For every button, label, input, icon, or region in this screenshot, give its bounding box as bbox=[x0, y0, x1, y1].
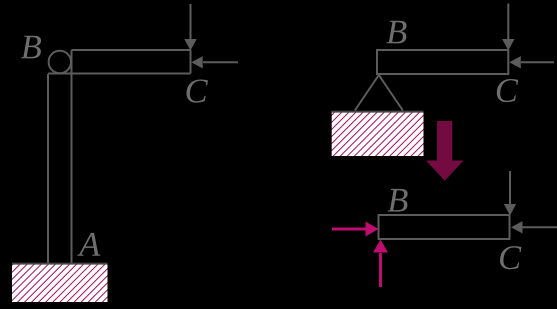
big implication arrow (down, dark magenta) bbox=[426, 121, 464, 181]
label C (frame) bbox=[187, 79, 208, 102]
force arrow (horizontal, left) at C bbox=[509, 56, 554, 68]
label B (frame) bbox=[21, 36, 41, 59]
force arrow (horizontal, left) at C bbox=[191, 56, 238, 68]
force arrow (horizontal, left) at C bbox=[511, 221, 557, 233]
pin circle at B bbox=[49, 51, 71, 73]
member AB (vertical bar, two lines) bbox=[48, 50, 72, 263]
force arrow (vertical, down) at C bbox=[502, 4, 514, 51]
force arrow (vertical, down) at C bbox=[504, 171, 516, 216]
member BC (horizontal beam) bbox=[48, 50, 191, 74]
beam BC bbox=[379, 215, 510, 239]
ground block at A (hatched) bbox=[12, 263, 108, 302]
force arrow (vertical, down) at C bbox=[184, 4, 196, 51]
label A (frame) bbox=[77, 233, 100, 256]
label B (beam 3) bbox=[388, 189, 408, 212]
reaction arrow Bx (magenta, pointing right) bbox=[332, 222, 379, 237]
reaction arrow By (magenta, pointing up) bbox=[373, 240, 388, 288]
ground block under pin (hatched) bbox=[332, 111, 424, 156]
label C (beam 3) bbox=[500, 246, 521, 269]
pin support triangle bbox=[355, 75, 403, 111]
beam BC bbox=[377, 50, 508, 74]
label B (beam 2) bbox=[387, 21, 407, 44]
label C (beam 2) bbox=[497, 79, 518, 102]
